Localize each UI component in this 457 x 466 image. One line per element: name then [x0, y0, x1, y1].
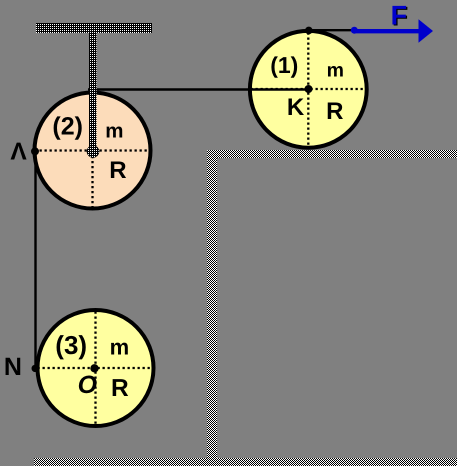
- pulley (3) axle dot O: [90, 364, 98, 372]
- pulley (3) disc: [38, 310, 154, 426]
- pulley (3) vertical dotted diameter: [94, 312, 96, 425]
- svg-text:R: R: [109, 157, 126, 184]
- svg-text:(1): (1): [270, 52, 298, 78]
- svg-text:Λ: Λ: [10, 139, 27, 166]
- cord from pulley (1) top to force application point: [309, 29, 355, 31]
- ceiling bar (hatched): [36, 23, 152, 33]
- svg-text:F: F: [391, 1, 408, 31]
- svg-text:K: K: [287, 94, 305, 121]
- pulley (1) disc: [250, 31, 367, 148]
- support rod (hatched): [89, 33, 97, 151]
- svg-text:m: m: [105, 120, 123, 143]
- rod end boss at pulley (2) axle: [87, 145, 99, 157]
- pulley (2) horizontal dotted diameter: [35, 149, 151, 151]
- pulley (2) disc: [35, 93, 151, 209]
- pulley (3) horizontal dotted diameter: [38, 367, 154, 369]
- floor (hatched): [34, 458, 457, 466]
- pulley (1) axle dot K: [305, 85, 313, 93]
- pulley (1) top rim dot: [305, 27, 313, 35]
- rope from pulley (2) top to pulley (1) axle K: [88, 88, 310, 90]
- table top surface (hatched): [207, 150, 457, 158]
- svg-text:R: R: [326, 98, 343, 125]
- svg-text:(3): (3): [55, 330, 87, 360]
- pulley (1) vertical dotted diameter: [307, 33, 309, 148]
- pulley (1) horizontal dotted diameter: [251, 88, 365, 90]
- node dot N on pulley (3) rim: [32, 365, 39, 372]
- force F arrow shaft: [354, 29, 420, 33]
- force application dot: [351, 27, 358, 34]
- svg-text:R: R: [111, 375, 129, 402]
- svg-text:O: O: [78, 371, 98, 399]
- svg-text:N: N: [4, 353, 22, 381]
- force F arrowhead: [419, 19, 434, 43]
- svg-text:(2): (2): [52, 112, 83, 140]
- rope from Lambda down to N: [34, 151, 36, 368]
- pulley (2) vertical dotted radius: [91, 151, 93, 209]
- node dot Lambda on pulley (2) rim: [31, 147, 39, 155]
- table left edge (hatched): [207, 150, 217, 458]
- svg-text:m: m: [327, 60, 344, 82]
- svg-text:m: m: [110, 335, 130, 360]
